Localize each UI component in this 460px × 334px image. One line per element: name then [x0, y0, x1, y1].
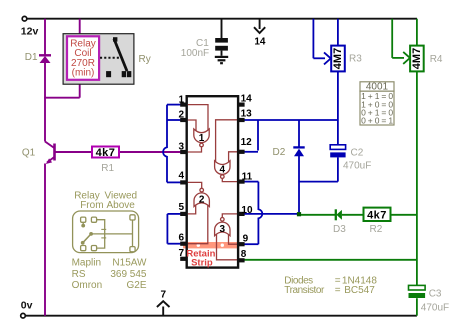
svg-text:D3: D3: [333, 224, 346, 235]
svg-text:From: From: [80, 200, 103, 211]
svg-text:R1: R1: [101, 163, 114, 174]
svg-text:R4: R4: [430, 54, 443, 65]
svg-text:2: 2: [199, 195, 205, 206]
svg-text:12: 12: [241, 137, 253, 148]
svg-text:R3: R3: [349, 54, 362, 65]
svg-text:0v: 0v: [21, 299, 33, 311]
svg-text:Ry: Ry: [139, 54, 151, 65]
svg-text:=: =: [335, 285, 341, 296]
svg-text:Q1: Q1: [22, 148, 36, 159]
svg-text:11: 11: [242, 171, 253, 182]
svg-text:Transistor: Transistor: [284, 285, 325, 296]
svg-text:(min): (min): [72, 68, 95, 79]
svg-text:10: 10: [241, 205, 253, 216]
svg-text:1: 1: [178, 94, 184, 105]
svg-text:Above: Above: [107, 200, 136, 211]
svg-text:8: 8: [241, 249, 247, 260]
svg-text:470uF: 470uF: [343, 160, 371, 171]
svg-text:4k7: 4k7: [96, 147, 116, 159]
svg-text:9: 9: [243, 233, 249, 244]
svg-text:6: 6: [178, 233, 184, 244]
svg-text:4: 4: [178, 170, 184, 181]
svg-text:1: 1: [199, 133, 205, 144]
svg-text:0 + 0 = 1: 0 + 0 = 1: [361, 116, 393, 126]
svg-text:5: 5: [178, 202, 184, 213]
svg-text:2: 2: [178, 109, 184, 120]
svg-text:3: 3: [220, 224, 226, 235]
svg-text:C3: C3: [429, 288, 442, 299]
svg-text:D1: D1: [25, 52, 38, 63]
svg-text:Strip: Strip: [191, 258, 213, 269]
svg-text:14: 14: [241, 94, 253, 105]
svg-text:RS: RS: [72, 269, 86, 280]
svg-text:369 545: 369 545: [110, 269, 147, 280]
svg-text:7: 7: [178, 248, 184, 259]
svg-text:C2: C2: [351, 148, 364, 159]
svg-text:4: 4: [220, 165, 226, 176]
svg-text:Maplin: Maplin: [72, 257, 101, 268]
svg-text:BC547: BC547: [344, 285, 375, 296]
svg-text:3: 3: [178, 142, 184, 153]
svg-text:100nF: 100nF: [181, 48, 209, 59]
svg-text:4M7: 4M7: [411, 48, 423, 69]
svg-text:G2E: G2E: [126, 280, 146, 291]
svg-text:R2: R2: [370, 224, 383, 235]
svg-text:D2: D2: [273, 147, 286, 158]
svg-text:4M7: 4M7: [332, 48, 344, 69]
svg-text:470uF: 470uF: [421, 302, 449, 313]
svg-text:4k7: 4k7: [367, 210, 387, 222]
svg-text:13: 13: [241, 108, 253, 119]
svg-text:12v: 12v: [21, 25, 39, 37]
svg-text:Omron: Omron: [72, 280, 103, 291]
svg-text:7: 7: [161, 290, 167, 301]
svg-text:14: 14: [254, 37, 266, 48]
svg-text:N15AW: N15AW: [112, 258, 147, 269]
